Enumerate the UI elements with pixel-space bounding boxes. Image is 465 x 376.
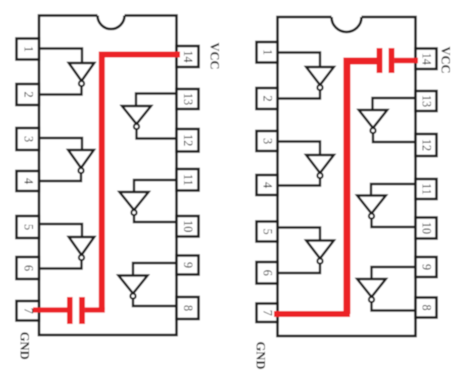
svg-text:11: 11	[420, 183, 434, 195]
svg-text:13: 13	[420, 95, 434, 107]
svg-text:9: 9	[181, 262, 195, 268]
svg-text:VCC: VCC	[439, 46, 453, 73]
svg-text:8: 8	[181, 305, 195, 311]
svg-text:VCC: VCC	[208, 42, 222, 69]
svg-text:6: 6	[21, 265, 35, 271]
svg-text:14: 14	[420, 53, 434, 65]
svg-text:12: 12	[181, 134, 195, 146]
svg-text:3: 3	[21, 136, 35, 142]
svg-text:2: 2	[261, 95, 275, 101]
svg-text:9: 9	[420, 264, 434, 270]
svg-text:4: 4	[261, 182, 275, 188]
svg-text:1: 1	[21, 46, 35, 52]
svg-text:7: 7	[261, 310, 275, 316]
svg-text:4: 4	[21, 178, 35, 184]
svg-text:6: 6	[261, 270, 275, 276]
svg-text:13: 13	[181, 93, 195, 105]
svg-text:12: 12	[420, 139, 434, 151]
svg-text:1: 1	[261, 49, 275, 55]
svg-text:8: 8	[420, 304, 434, 310]
svg-text:GND: GND	[254, 342, 268, 370]
svg-text:14: 14	[181, 50, 195, 62]
svg-text:10: 10	[420, 222, 434, 234]
svg-text:GND: GND	[18, 332, 32, 360]
svg-text:2: 2	[21, 91, 35, 97]
svg-text:3: 3	[261, 138, 275, 144]
svg-text:11: 11	[181, 174, 195, 186]
svg-text:5: 5	[261, 228, 275, 234]
svg-text:10: 10	[181, 220, 195, 232]
svg-text:5: 5	[21, 224, 35, 230]
